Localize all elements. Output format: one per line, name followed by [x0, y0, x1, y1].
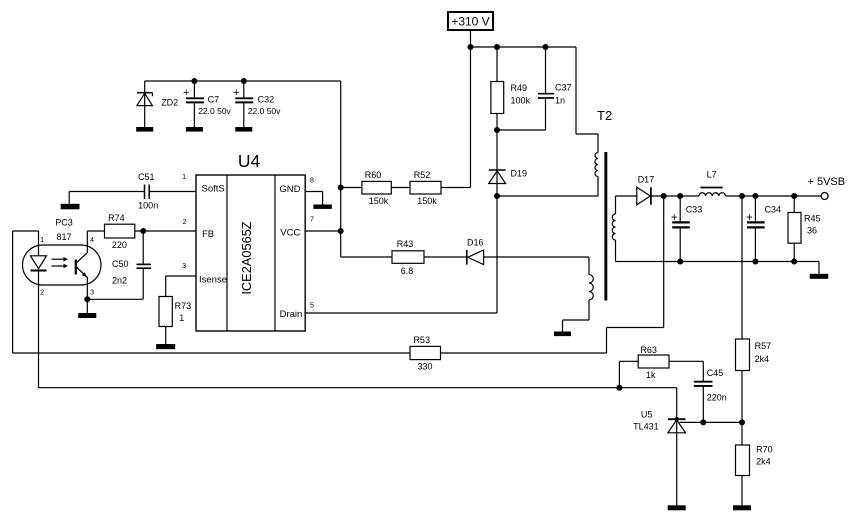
svg-text:C7: C7	[208, 95, 220, 105]
svg-text:150k: 150k	[369, 196, 389, 206]
svg-text:22.0 50v: 22.0 50v	[198, 106, 231, 116]
svg-text:2n2: 2n2	[112, 276, 127, 286]
svg-text:GND: GND	[279, 184, 300, 195]
svg-text:R57: R57	[755, 341, 772, 351]
svg-text:+: +	[183, 87, 189, 99]
svg-text:330: 330	[417, 362, 432, 372]
svg-text:+: +	[233, 87, 239, 99]
svg-text:R53: R53	[413, 335, 430, 345]
svg-text:+ 5VSB: + 5VSB	[808, 176, 846, 188]
svg-text:2k4: 2k4	[755, 354, 770, 364]
svg-text:2k4: 2k4	[756, 456, 771, 466]
svg-text:220n: 220n	[707, 393, 727, 403]
svg-text:PC3: PC3	[55, 218, 73, 228]
svg-text:220: 220	[112, 240, 127, 250]
svg-text:VCC: VCC	[280, 227, 300, 238]
svg-text:R60: R60	[365, 170, 382, 180]
svg-text:R43: R43	[397, 239, 414, 249]
svg-text:R70: R70	[756, 445, 773, 455]
svg-text:R63: R63	[640, 345, 657, 355]
svg-text:1n: 1n	[555, 96, 565, 106]
svg-text:150k: 150k	[417, 196, 437, 206]
svg-text:7: 7	[310, 217, 314, 224]
svg-text:Isense: Isense	[199, 275, 227, 286]
svg-text:R52: R52	[414, 170, 431, 180]
svg-text:3: 3	[90, 290, 94, 297]
svg-text:C50: C50	[112, 259, 129, 269]
svg-text:U4: U4	[238, 151, 261, 171]
svg-text:R49: R49	[511, 83, 528, 93]
svg-text:36: 36	[807, 226, 817, 236]
svg-text:2: 2	[183, 219, 187, 226]
svg-text:C32: C32	[258, 95, 275, 105]
svg-text:1: 1	[40, 237, 44, 244]
svg-text:D19: D19	[511, 169, 528, 179]
svg-text:U5: U5	[641, 410, 653, 420]
svg-text:C45: C45	[707, 368, 724, 378]
svg-text:1: 1	[182, 174, 186, 181]
svg-text:100k: 100k	[511, 96, 531, 106]
svg-text:T2: T2	[597, 108, 612, 123]
svg-text:FB: FB	[202, 229, 214, 240]
svg-text:C33: C33	[686, 205, 703, 215]
svg-text:R73: R73	[175, 301, 192, 311]
svg-text:817: 817	[56, 232, 71, 242]
svg-text:D16: D16	[467, 238, 484, 248]
svg-text:+: +	[746, 212, 753, 224]
svg-text:1: 1	[179, 313, 184, 323]
svg-text:8: 8	[310, 178, 314, 185]
svg-text:C34: C34	[765, 205, 782, 215]
svg-text:22.0 50v: 22.0 50v	[248, 106, 281, 116]
svg-text:6.8: 6.8	[401, 266, 414, 276]
svg-text:ICE2A0565Z: ICE2A0565Z	[239, 221, 254, 294]
svg-text:1k: 1k	[646, 370, 656, 380]
svg-text:+: +	[671, 212, 678, 224]
svg-text:C51: C51	[138, 172, 155, 182]
svg-text:D17: D17	[638, 175, 655, 185]
svg-text:100n: 100n	[138, 201, 158, 211]
svg-text:R74: R74	[108, 213, 125, 223]
svg-text:R45: R45	[804, 213, 821, 223]
svg-text:C37: C37	[555, 83, 572, 93]
svg-text:4: 4	[90, 237, 94, 244]
svg-text:+310 V: +310 V	[451, 15, 489, 29]
svg-text:2: 2	[40, 290, 44, 297]
svg-text:5: 5	[310, 302, 314, 309]
svg-text:L7: L7	[707, 170, 717, 180]
svg-text:TL431: TL431	[633, 421, 659, 431]
svg-text:SoftS: SoftS	[202, 184, 225, 195]
svg-text:Drain: Drain	[280, 309, 303, 320]
svg-text:ZD2: ZD2	[161, 97, 178, 107]
svg-text:3: 3	[182, 263, 186, 270]
